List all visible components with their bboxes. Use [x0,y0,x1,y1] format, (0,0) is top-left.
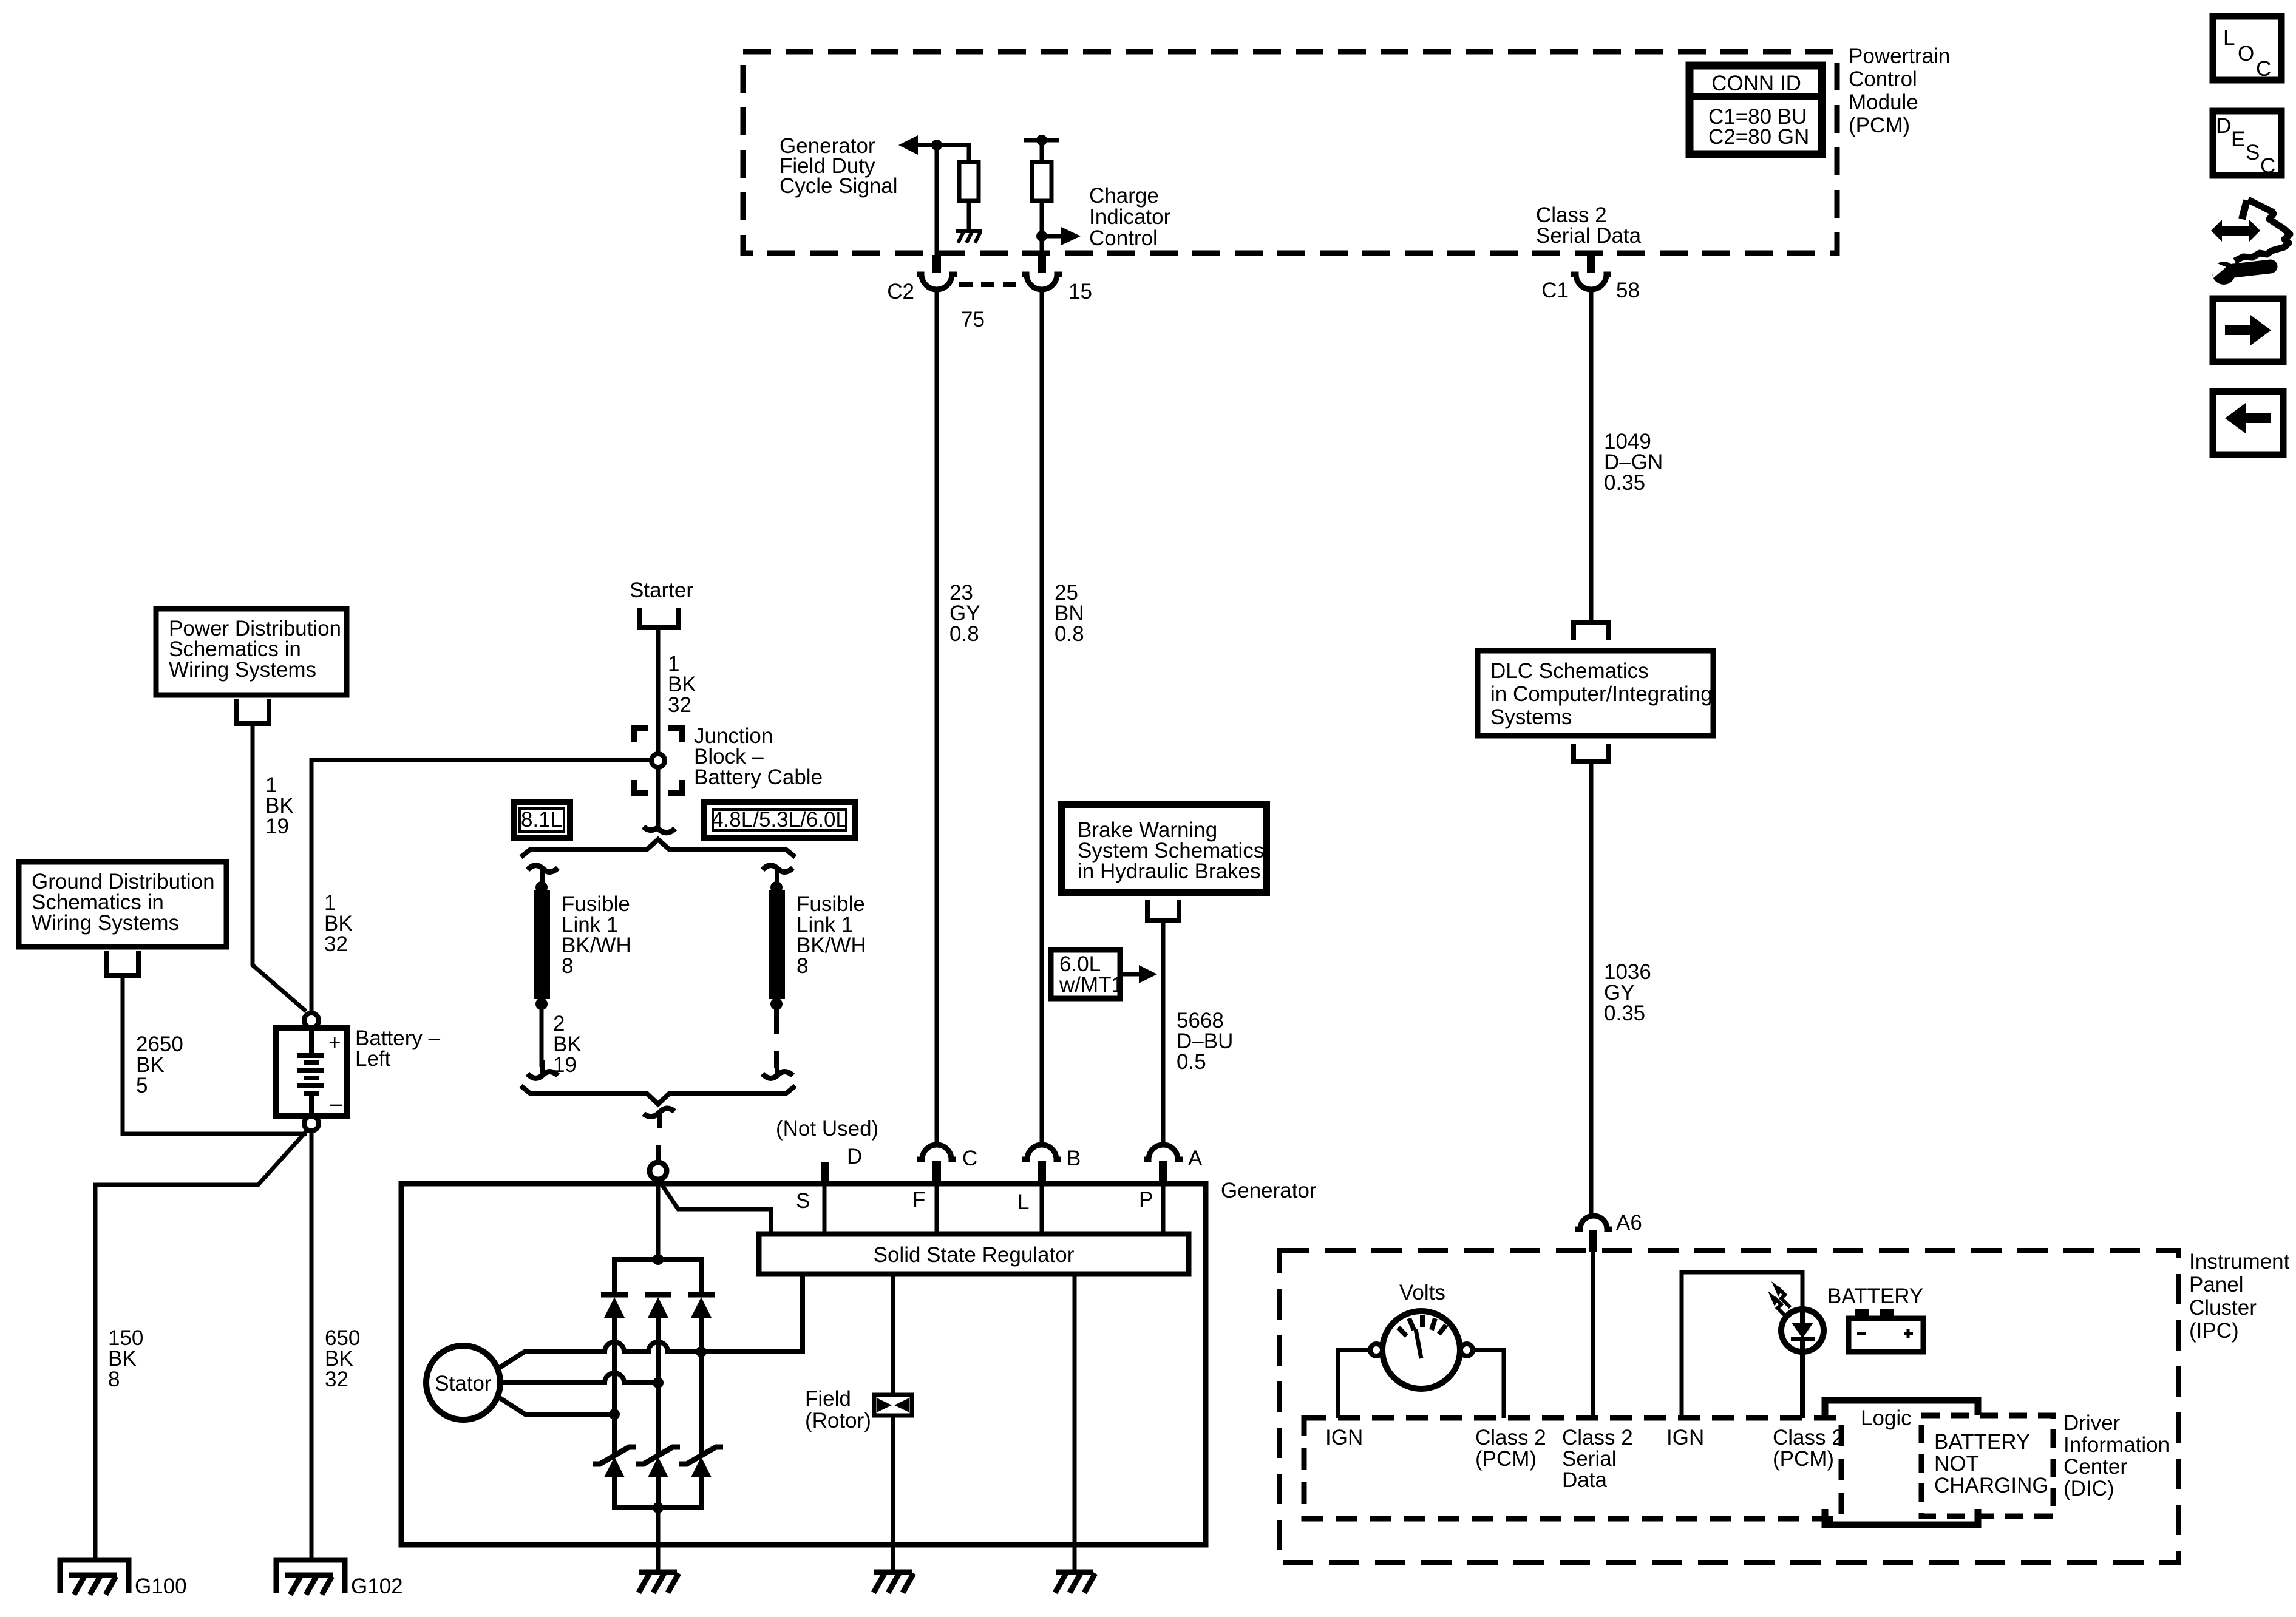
IPC dashed box [1279,1250,2178,1562]
svg-text:Control: Control [1089,226,1158,250]
LED charge indicator [1781,1309,1824,1418]
label Instrument Panel Cluster (IPC) [2189,1250,2290,1343]
icon LOC box [2213,16,2281,81]
wire 1 BK 32 battery feed [311,760,653,1012]
svg-text:Systems: Systems [1490,705,1572,729]
wire regulator L to ground [1073,1274,1077,1572]
connector bracket below Brake Warning box [1147,900,1179,920]
svg-text:75: 75 [961,308,985,331]
svg-text:(Not Used): (Not Used) [776,1117,878,1141]
connector A6 into IPC [1575,1216,1612,1252]
connector C1 pin 58 [1571,255,1611,290]
node bottom bus dot [653,1502,664,1513]
splice swoosh top of fusible link 1 (left) [528,866,558,872]
icon back arrow box [2213,392,2283,455]
svg-text:Charge: Charge [1089,184,1159,208]
svg-text:Data: Data [1562,1468,1607,1492]
zener diode lower left [593,1447,636,1508]
node battery negative terminal circle [304,1116,319,1131]
wire D stub to regulator [823,1184,827,1234]
splice swoosh bottom right link [763,1072,793,1079]
wire PCM 15 to generator B (25 BN 0.8) [1040,290,1044,1146]
fusible link 1 right [769,881,785,1010]
wire DLC to IPC A6 (1036 GY 0.35) [1589,761,1594,1217]
stator circle [426,1346,500,1420]
node gauge left terminal [1370,1344,1382,1356]
svg-text:19: 19 [265,815,289,838]
box 8.1L [514,802,570,838]
battery indicator icon [1849,1309,1923,1352]
wire P pin to regulator [1161,1184,1166,1234]
splice swoosh top of fusible link 1 (right) [763,866,793,872]
arrow Charge Indicator Control [1042,227,1081,245]
label Class 2 Serial Data [1562,1426,1633,1492]
svg-text:B: B [1067,1147,1081,1170]
ground regulator L [1055,1572,1095,1593]
svg-text:(DIC): (DIC) [2063,1477,2114,1500]
node dot charge indicator [1036,231,1047,242]
svg-text:Solid State Regulator: Solid State Regulator [874,1243,1075,1267]
svg-text:(PCM): (PCM) [1849,114,1910,137]
arrow Generator Field Duty Cycle Signal [898,135,918,155]
svg-text:in Computer/Integrating: in Computer/Integrating [1490,682,1713,706]
connector pin A (generator P) [1144,1145,1183,1184]
dashed stub to S terminal circle [656,1145,661,1161]
svg-text:0.5: 0.5 [1177,1050,1206,1074]
svg-text:A: A [1188,1147,1203,1170]
label Field (Rotor) [805,1387,871,1432]
wire IGN 2 feed [1682,1272,1802,1418]
node stator top to right diode column [696,1346,707,1357]
label 1 BK 19 [265,773,294,838]
terminal D stub [821,1162,829,1184]
label 1036 GY 0.35 [1604,960,1651,1025]
svg-text:Starter: Starter [630,578,693,602]
label 5668 D-BU 0.5 [1177,1009,1233,1074]
svg-text:8.1L: 8.1L [521,808,562,832]
arrow 6.0L w/MT1 [1120,965,1157,983]
label Junction Block - Battery Cable [694,724,823,789]
svg-text:Module: Module [1849,90,1918,114]
connector bracket below DLC box [1574,744,1609,761]
wire node to resistor R1 [968,145,969,162]
ground generator bridge [639,1572,679,1593]
svg-text:–: – [330,1092,342,1116]
svg-text:Panel: Panel [2189,1273,2244,1297]
svg-text:C2=80 GN: C2=80 GN [1708,125,1809,149]
svg-text:P: P [1139,1188,1153,1212]
svg-text:Logic: Logic [1861,1406,1912,1430]
svg-text:Stator: Stator [435,1372,492,1395]
wire down to resistor R2 [1040,140,1044,162]
svg-text:Driver: Driver [2063,1411,2121,1435]
wire S circle to regulator [661,1184,771,1234]
zener diode lower right [679,1447,723,1508]
svg-text:32: 32 [668,693,691,717]
svg-text:Battery Cable: Battery Cable [694,765,823,789]
wire gauge left to IGN [1338,1350,1370,1418]
box Power Distribution Schematics in Wiring Systems [156,609,347,695]
node top bus dot [653,1254,664,1265]
dashed wire below right fusible link [774,1009,779,1068]
label Class 2 Serial Data (PCM) [1536,203,1642,248]
svg-text:F: F [912,1188,925,1212]
ground field [874,1572,914,1593]
label Fusible Link 1 BK/WH 8 (right) [796,892,866,978]
label 23 GY 0.8 [949,581,980,646]
brace upper (engine options) [521,839,795,857]
wire battery negative to G100 [95,1129,308,1561]
svg-text:L: L [1017,1190,1029,1214]
svg-text:NOT: NOT [1934,1452,1979,1476]
field rotor symbol [874,1395,912,1415]
connector bracket below Power Distribution box [237,699,269,724]
svg-text:O: O [2238,42,2254,66]
connector dashed line C2 to pin 15 [959,282,1025,287]
node dot R2 top [1036,135,1047,146]
label Battery - Left [355,1026,441,1071]
svg-text:Wiring Systems: Wiring Systems [169,658,316,682]
svg-text:IGN: IGN [1666,1426,1704,1449]
ground (PCM internal) [956,231,982,243]
CONN ID table [1690,66,1822,154]
svg-text:Indicator: Indicator [1089,205,1171,229]
svg-text:w/MT1: w/MT1 [1059,973,1123,997]
label Generator Field Duty Cycle Signal [779,134,898,198]
label 1 BK 32 (starter) [668,652,696,717]
svg-text:0.8: 0.8 [1055,622,1084,646]
label 1049 D-GN 0.35 [1604,430,1663,495]
svg-text:S: S [2246,141,2260,164]
svg-text:(Rotor): (Rotor) [805,1409,871,1432]
node stator bottom to left column [609,1409,620,1420]
svg-text:8: 8 [562,954,573,978]
label Fusible Link 1 BK/WH 8 (left) [562,892,631,978]
svg-text:BATTERY: BATTERY [1827,1284,1923,1308]
generator box [401,1184,1206,1545]
icon service info (outline, double arrow, wrench) [2209,200,2290,285]
svg-text:CONN ID: CONN ID [1711,72,1801,95]
svg-text:C1: C1 [1541,279,1569,302]
LED emission arrows [1768,1281,1790,1317]
fusible link 1 left [534,881,550,1010]
svg-text:0.35: 0.35 [1604,471,1645,495]
svg-text:in Hydraulic Brakes: in Hydraulic Brakes [1078,859,1261,883]
svg-text:8: 8 [108,1368,120,1391]
solid state regulator box [759,1234,1189,1274]
svg-text:C: C [2256,57,2271,81]
label 2650 BK 5 [136,1032,183,1097]
wire 2 BK 19 below left fusible link [540,1009,544,1067]
label 150 BK 8 [108,1326,143,1391]
svg-text:Class 2: Class 2 [1475,1426,1546,1449]
junction block dashed corners [634,728,682,793]
svg-text:E: E [2231,127,2245,151]
svg-text:Left: Left [355,1047,391,1071]
connector bracket above DLC box [1574,623,1609,640]
label Class 2 (PCM) volts [1475,1426,1546,1471]
node S terminal circle on generator [650,1162,667,1179]
wire field to ground [891,1415,895,1572]
wire regulator F to field [891,1274,895,1395]
label Class 2 (PCM) led [1773,1426,1844,1471]
wire junction block down [656,767,661,830]
wire 2650 BK 5 [123,975,307,1134]
connector pin 15 [1022,255,1062,290]
wire 5668 D-BU 0.5 [1161,920,1166,1146]
wire columns mid section [614,1351,701,1454]
label Driver Information Center (DIC) [2063,1411,2170,1500]
svg-text:G100: G100 [135,1575,187,1598]
svg-text:DLC Schematics: DLC Schematics [1490,659,1649,683]
diode upper right [688,1295,715,1351]
svg-text:D: D [2216,114,2231,138]
logic bracket lower [1825,1509,1978,1525]
wire 1 BK 19 [253,724,306,1011]
box Brake Warning System Schematics in Hydraulic Brakes [1062,804,1266,892]
label 25 BN 0.8 [1055,581,1084,646]
box Ground Distribution Schematics in Wiring Systems [19,862,226,947]
svg-text:Control: Control [1849,67,1917,91]
svg-text:G102: G102 [351,1575,403,1598]
svg-text:CHARGING: CHARGING [1934,1474,2049,1497]
gauge Volts [1382,1311,1460,1389]
icon forward arrow box [2213,299,2283,362]
connector C2 pin 75 [917,255,957,290]
svg-text:5: 5 [136,1074,148,1097]
svg-text:BATTERY: BATTERY [1934,1430,2030,1454]
box 6.0L w/MT1 [1051,950,1123,998]
svg-text:(PCM): (PCM) [1773,1447,1834,1471]
connector pin B (generator L) [1022,1145,1061,1184]
wire R1 to ground [967,201,971,231]
wire gauge right to Class 2 (PCM) [1473,1350,1504,1418]
IPC connector row dashed box [1304,1418,1841,1519]
label BATTERY NOT CHARGING [1934,1430,2049,1497]
splice swoosh bottom left link [528,1072,558,1079]
svg-text:Serial Data: Serial Data [1536,224,1642,248]
svg-text:Powertrain: Powertrain [1849,44,1950,68]
svg-text:Center: Center [2063,1455,2127,1479]
box DLC Schematics in Computer/Integrating Systems [1478,651,1713,736]
svg-text:0.35: 0.35 [1604,1002,1645,1025]
wire A6 to class 2 serial data row [1591,1250,1595,1418]
svg-text:Serial: Serial [1562,1447,1616,1471]
splice crossover symbol above brace [644,827,675,833]
resistor R1 [959,162,979,201]
node gauge right terminal [1461,1344,1473,1356]
svg-text:C2: C2 [887,280,914,303]
BATTERY NOT CHARGING dashed box [1921,1415,2053,1516]
diode upper left [601,1295,628,1351]
svg-text:D: D [847,1145,862,1168]
connector pin C (generator F) [917,1145,956,1184]
svg-text:0.8: 0.8 [949,622,979,646]
splice swoosh below merge [644,1108,674,1117]
wire bridge to generator ground [656,1508,661,1572]
label 650 BK 32 [325,1326,360,1391]
icon DESC box [2213,111,2281,178]
wire stub at resistor R2 top [1024,138,1059,143]
svg-text:32: 32 [325,1368,348,1391]
connector bracket below Ground Distribution box [106,951,138,975]
label Powertrain Control Module (PCM) [1849,44,1950,137]
svg-text:4.8L/5.3L/6.0L: 4.8L/5.3L/6.0L [712,808,847,832]
svg-text:C: C [962,1147,977,1170]
svg-text:+: + [328,1031,341,1054]
zener diode lower middle [636,1447,680,1508]
svg-text:32: 32 [324,932,348,956]
wire arrow to node [915,143,969,147]
wire PCM 75 to generator C (23 GY 0.8) [935,290,939,1146]
stator winding middle lead [500,1373,658,1383]
svg-text:(PCM): (PCM) [1475,1447,1537,1471]
wire C1 58 to DLC (1049 D-GN 0.35) [1589,290,1594,622]
svg-text:8: 8 [796,954,808,978]
battery Battery-Left [276,1028,347,1116]
label Charge Indicator Control [1089,184,1171,250]
diode bridge bottom bus [614,1476,701,1508]
wire node down to C2 pin [935,145,939,257]
label 2 BK 19 [553,1012,582,1077]
stator winding bottom lead [498,1397,614,1414]
wire Starter 1 BK 32 [656,628,661,755]
node junction block circle [651,754,665,767]
brace lower (merge) [521,1086,795,1104]
diode upper middle [645,1295,671,1351]
connector bracket below Starter [639,608,678,628]
stator winding top lead [498,1274,803,1369]
label 1 BK 32 [324,891,353,956]
node battery positive terminal circle [304,1013,319,1028]
svg-text:Cycle Signal: Cycle Signal [779,174,898,198]
svg-text:Field: Field [805,1387,851,1411]
diode bridge top bus [614,1259,701,1293]
svg-text:L: L [2223,26,2235,50]
ground G100 [60,1560,129,1595]
svg-text:Generator: Generator [1221,1179,1317,1202]
logic bracket upper [1825,1400,1978,1415]
box 4.8L/5.3L/6.0L [704,802,855,838]
node junction dot [931,140,942,151]
svg-text:A6: A6 [1616,1211,1642,1235]
wire S column into bridge [656,1181,661,1259]
svg-text:Volts: Volts [1399,1281,1445,1304]
svg-text:Information: Information [2063,1433,2170,1457]
ground G102 [276,1560,345,1595]
resistor R2 [1032,162,1051,201]
svg-text:Class 2: Class 2 [1562,1426,1633,1449]
svg-text:Instrument: Instrument [2189,1250,2290,1273]
svg-text:Cluster: Cluster [2189,1296,2257,1320]
svg-text:(IPC): (IPC) [2189,1319,2239,1343]
node stator middle to middle column [653,1377,664,1388]
svg-text:Wiring Systems: Wiring Systems [32,911,179,935]
svg-text:C: C [2260,154,2275,178]
wire battery negative to G102 [310,1131,314,1561]
svg-text:15: 15 [1068,280,1092,303]
svg-text:IGN: IGN [1325,1426,1363,1449]
svg-text:Class 2: Class 2 [1773,1426,1844,1449]
svg-text:58: 58 [1616,279,1640,302]
wire F pin to regulator [935,1184,939,1234]
PCM dashed box [743,52,1837,253]
wire R2 to node [1040,201,1044,257]
svg-text:S: S [796,1189,810,1213]
wire L pin to regulator [1040,1184,1044,1234]
